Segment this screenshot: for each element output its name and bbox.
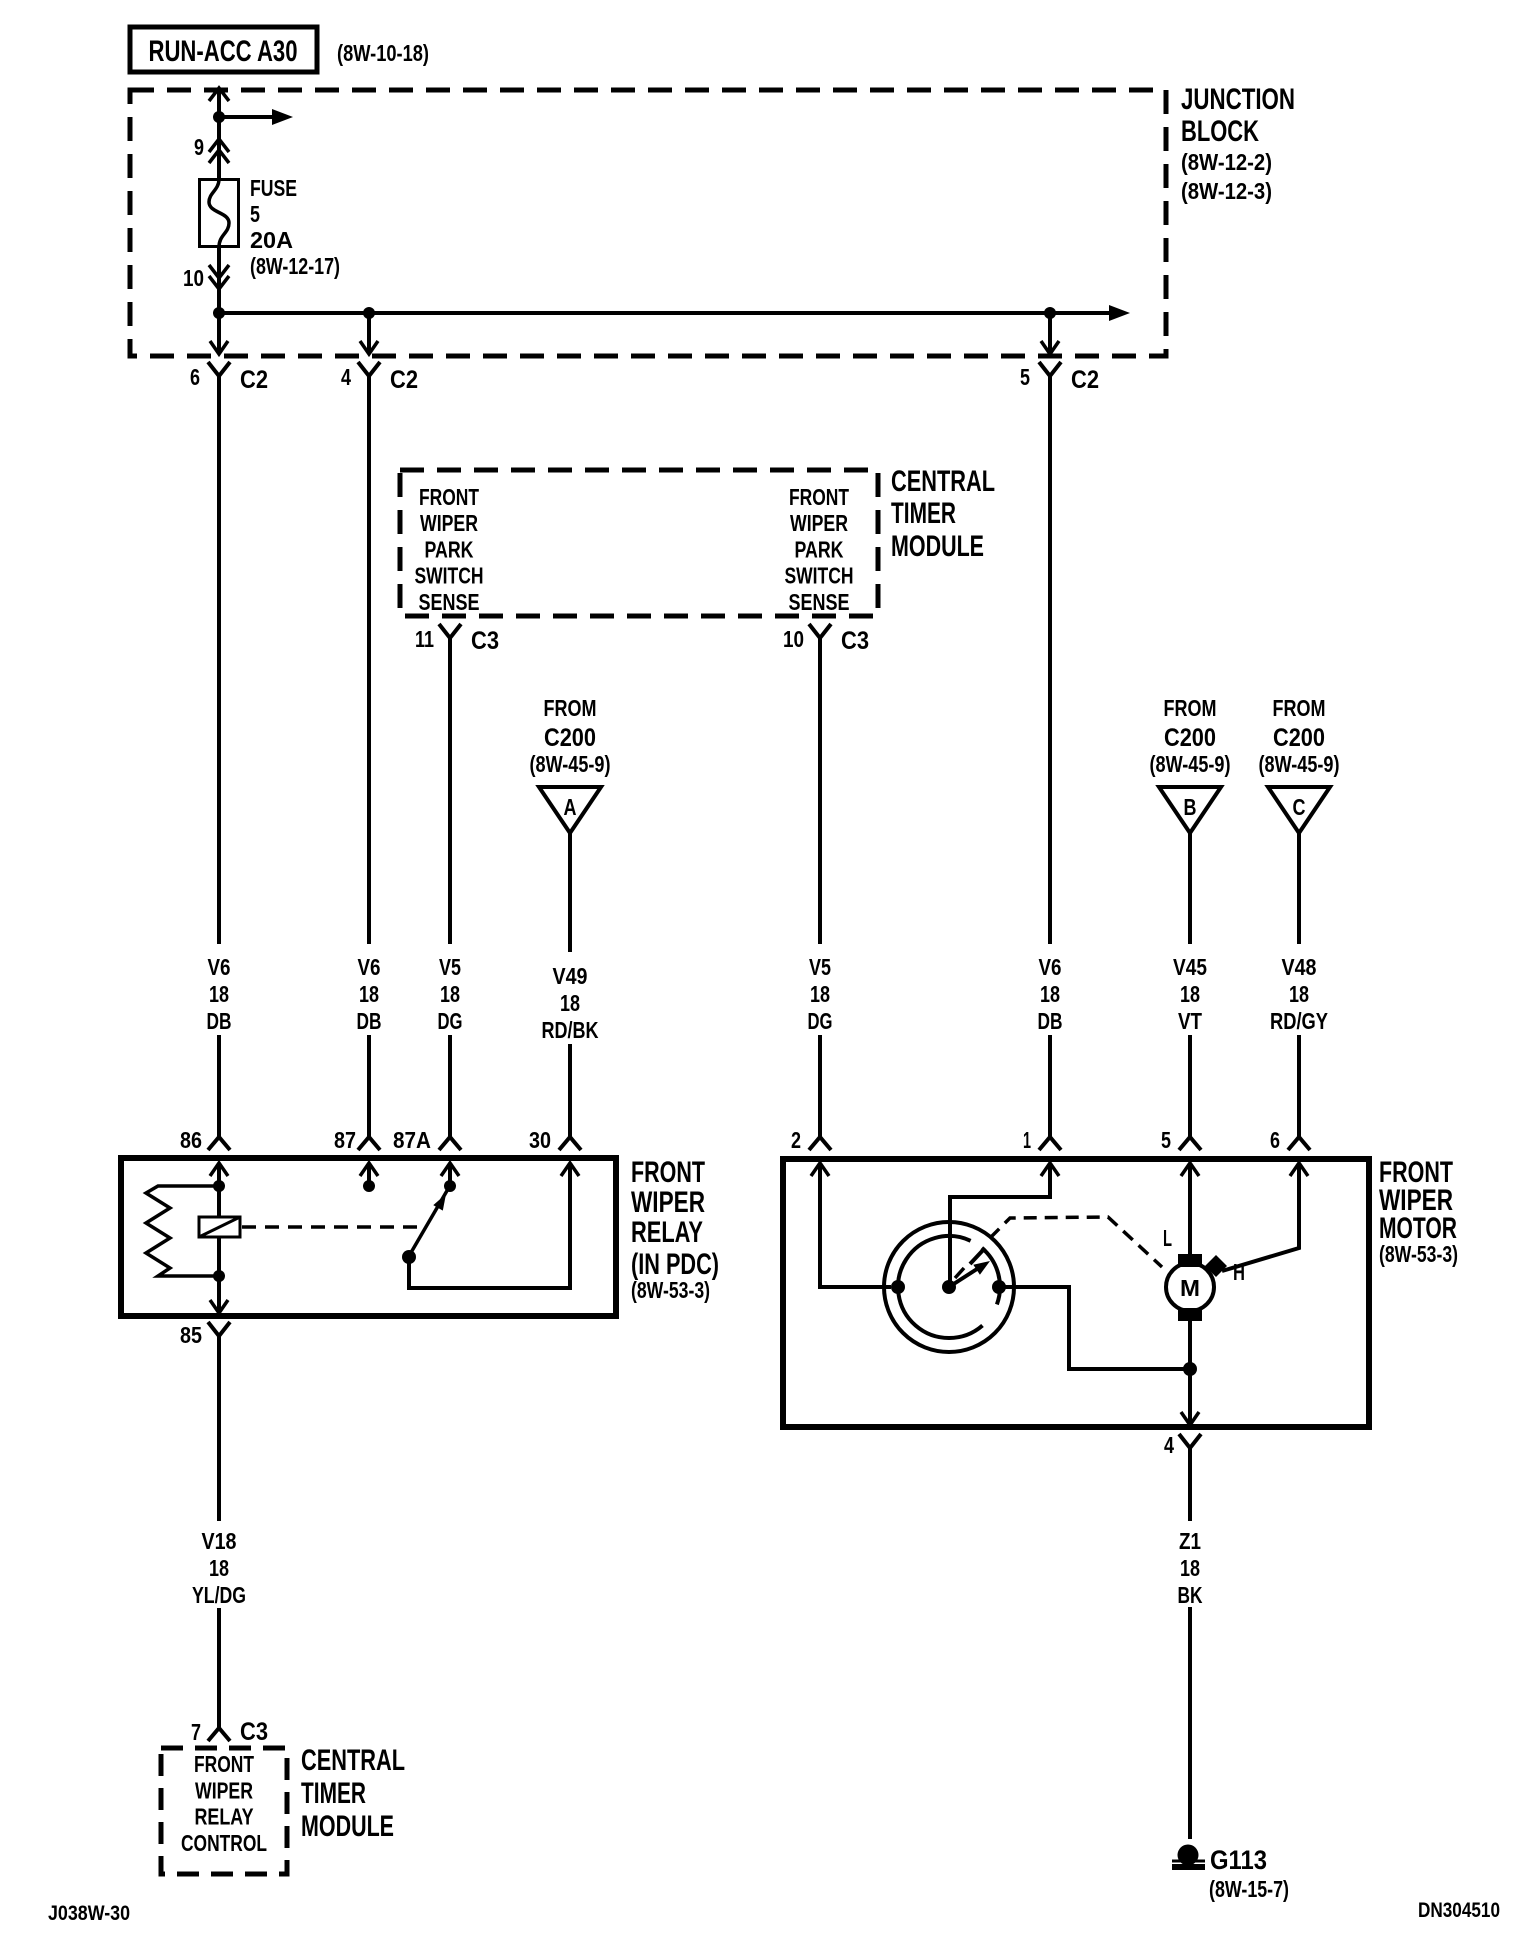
svg-text:RUN-ACC A30: RUN-ACC A30 — [149, 35, 298, 68]
svg-text:V45: V45 — [1173, 954, 1207, 980]
svg-text:CENTRAL: CENTRAL — [891, 465, 995, 498]
svg-text:5: 5 — [250, 201, 260, 227]
svg-text:C2: C2 — [240, 366, 268, 394]
svg-text:9: 9 — [194, 134, 204, 160]
svg-text:SWITCH: SWITCH — [415, 563, 484, 589]
svg-text:20A: 20A — [250, 227, 293, 253]
svg-text:DB: DB — [357, 1008, 382, 1034]
svg-text:YL/DG: YL/DG — [192, 1582, 246, 1608]
svg-text:18: 18 — [1180, 981, 1200, 1007]
svg-text:H: H — [1233, 1259, 1245, 1285]
svg-text:V5: V5 — [809, 954, 831, 980]
svg-text:2: 2 — [791, 1127, 801, 1153]
svg-text:V18: V18 — [202, 1528, 237, 1554]
svg-text:18: 18 — [1289, 981, 1309, 1007]
svg-text:V6: V6 — [208, 954, 231, 980]
svg-text:B: B — [1184, 794, 1197, 820]
svg-text:(8W-15-7): (8W-15-7) — [1209, 1876, 1289, 1902]
svg-text:A: A — [564, 794, 577, 820]
svg-text:DB: DB — [1038, 1008, 1063, 1034]
svg-text:18: 18 — [440, 981, 460, 1007]
svg-text:C2: C2 — [390, 366, 418, 394]
svg-text:PARK: PARK — [425, 536, 474, 562]
svg-text:(8W-45-9): (8W-45-9) — [1259, 751, 1340, 777]
svg-text:FROM: FROM — [1164, 695, 1217, 721]
svg-text:RD/GY: RD/GY — [1270, 1008, 1328, 1034]
svg-text:PARK: PARK — [795, 536, 844, 562]
svg-text:(8W-45-9): (8W-45-9) — [530, 751, 611, 777]
svg-text:TIMER: TIMER — [891, 497, 956, 530]
svg-text:TIMER: TIMER — [301, 1777, 366, 1810]
svg-text:SENSE: SENSE — [419, 589, 480, 615]
svg-text:87: 87 — [334, 1127, 356, 1153]
svg-text:CENTRAL: CENTRAL — [301, 1744, 405, 1777]
svg-text:C200: C200 — [1273, 724, 1325, 752]
svg-text:Z1: Z1 — [1179, 1528, 1201, 1554]
svg-text:7: 7 — [191, 1719, 201, 1745]
svg-text:C3: C3 — [240, 1718, 268, 1746]
svg-text:11: 11 — [415, 626, 434, 652]
svg-text:4: 4 — [1164, 1432, 1174, 1458]
svg-text:C2: C2 — [1071, 366, 1099, 394]
svg-text:FROM: FROM — [544, 695, 597, 721]
svg-text:FRONT: FRONT — [419, 484, 479, 510]
svg-text:RELAY: RELAY — [195, 1804, 254, 1830]
svg-text:6: 6 — [190, 364, 200, 390]
svg-text:C200: C200 — [544, 724, 596, 752]
svg-text:CONTROL: CONTROL — [181, 1830, 267, 1856]
svg-text:18: 18 — [209, 981, 229, 1007]
svg-text:G113: G113 — [1210, 1845, 1267, 1875]
svg-text:85: 85 — [180, 1322, 202, 1348]
svg-text:6: 6 — [1270, 1127, 1280, 1153]
svg-text:FROM: FROM — [1273, 695, 1326, 721]
svg-text:1: 1 — [1023, 1127, 1031, 1153]
svg-text:C200: C200 — [1164, 724, 1216, 752]
svg-text:10: 10 — [783, 626, 804, 652]
svg-text:SWITCH: SWITCH — [785, 563, 854, 589]
svg-text:5: 5 — [1161, 1127, 1171, 1153]
svg-text:C3: C3 — [841, 627, 869, 655]
svg-text:FRONT: FRONT — [194, 1751, 254, 1777]
svg-text:18: 18 — [810, 981, 830, 1007]
svg-text:RELAY: RELAY — [631, 1216, 703, 1249]
svg-text:(8W-53-3): (8W-53-3) — [631, 1277, 710, 1303]
svg-text:18: 18 — [1040, 981, 1060, 1007]
svg-text:(8W-12-17): (8W-12-17) — [250, 253, 340, 279]
svg-text:86: 86 — [180, 1127, 202, 1153]
svg-text:18: 18 — [209, 1555, 229, 1581]
svg-text:V49: V49 — [553, 963, 588, 989]
svg-text:(8W-12-2): (8W-12-2) — [1181, 149, 1272, 175]
svg-text:18: 18 — [359, 981, 379, 1007]
svg-text:V48: V48 — [1282, 954, 1317, 980]
svg-text:WIPER: WIPER — [631, 1186, 705, 1219]
svg-text:JUNCTION: JUNCTION — [1181, 83, 1295, 116]
svg-text:30: 30 — [529, 1127, 551, 1153]
svg-text:C3: C3 — [471, 627, 499, 655]
svg-text:BLOCK: BLOCK — [1181, 115, 1259, 148]
svg-text:V5: V5 — [439, 954, 461, 980]
svg-text:C: C — [1293, 794, 1306, 820]
svg-text:RD/BK: RD/BK — [542, 1017, 599, 1043]
svg-text:FRONT: FRONT — [789, 484, 849, 510]
svg-text:DG: DG — [808, 1008, 833, 1034]
svg-text:4: 4 — [341, 364, 351, 390]
svg-text:(8W-45-9): (8W-45-9) — [1150, 751, 1231, 777]
svg-text:V6: V6 — [358, 954, 381, 980]
svg-text:VT: VT — [1178, 1008, 1202, 1034]
svg-text:(8W-10-18): (8W-10-18) — [337, 40, 429, 66]
svg-text:(8W-12-3): (8W-12-3) — [1181, 178, 1272, 204]
svg-text:V6: V6 — [1039, 954, 1062, 980]
svg-text:BK: BK — [1178, 1582, 1203, 1608]
svg-text:L: L — [1163, 1225, 1172, 1251]
svg-text:5: 5 — [1020, 364, 1030, 390]
svg-text:J038W-30: J038W-30 — [48, 1902, 130, 1925]
svg-text:FRONT: FRONT — [631, 1156, 705, 1189]
svg-text:18: 18 — [1180, 1555, 1200, 1581]
svg-text:18: 18 — [560, 990, 580, 1016]
svg-text:(8W-53-3): (8W-53-3) — [1379, 1241, 1458, 1267]
svg-text:FUSE: FUSE — [250, 175, 297, 201]
svg-text:DB: DB — [207, 1008, 232, 1034]
svg-text:10: 10 — [183, 265, 204, 291]
svg-text:DG: DG — [438, 1008, 463, 1034]
svg-text:WIPER: WIPER — [790, 510, 848, 536]
svg-text:DN304510: DN304510 — [1418, 1899, 1500, 1922]
svg-text:MODULE: MODULE — [891, 530, 984, 563]
svg-text:WIPER: WIPER — [420, 510, 478, 536]
svg-text:SENSE: SENSE — [789, 589, 850, 615]
svg-text:M: M — [1180, 1275, 1200, 1301]
svg-text:87A: 87A — [393, 1127, 431, 1153]
svg-text:MODULE: MODULE — [301, 1810, 394, 1843]
svg-text:WIPER: WIPER — [195, 1777, 253, 1803]
